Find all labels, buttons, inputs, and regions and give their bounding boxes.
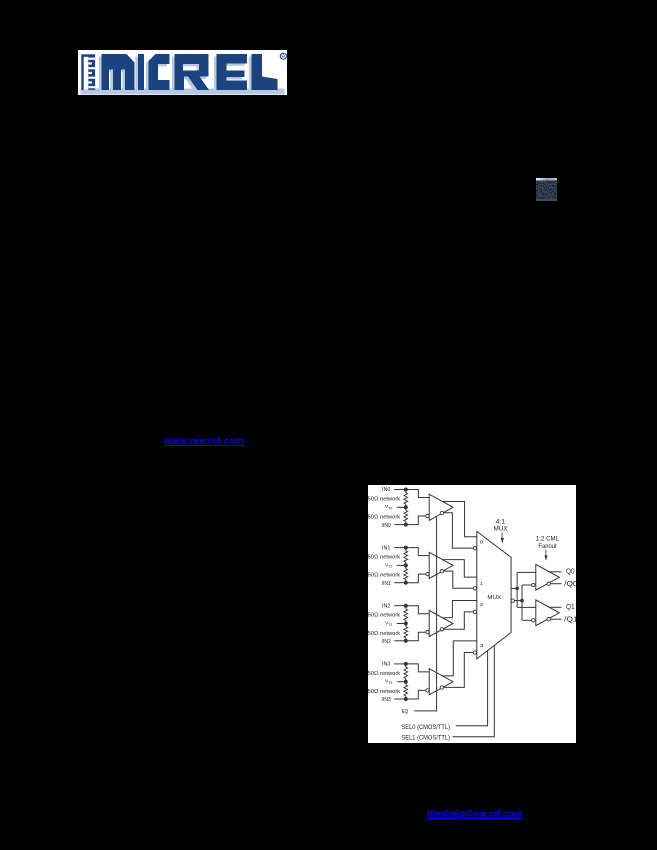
svg-text:50Ω network: 50Ω network: [368, 515, 401, 521]
svg-text:Q0: Q0: [566, 567, 575, 576]
svg-text:IN3: IN3: [382, 662, 391, 668]
svg-text:50Ω network: 50Ω network: [368, 689, 401, 695]
svg-text:/Q1: /Q1: [564, 615, 576, 624]
svg-text:VT2: VT2: [385, 620, 392, 626]
svg-text:/IN1: /IN1: [382, 581, 391, 587]
svg-text:/IN2: /IN2: [382, 639, 391, 645]
svg-text:/Q0: /Q0: [564, 579, 576, 588]
svg-text:IN0: IN0: [382, 487, 391, 493]
svg-text:4:1: 4:1: [496, 519, 506, 526]
svg-text:50Ω network: 50Ω network: [368, 631, 401, 637]
svg-text:0: 0: [480, 539, 484, 545]
svg-text:SEL1 (CMOS/TTL): SEL1 (CMOS/TTL): [401, 736, 450, 742]
svg-text:VT3: VT3: [385, 679, 392, 685]
svg-text:IN2: IN2: [382, 603, 391, 609]
svg-text:MUX: MUX: [494, 526, 509, 533]
svg-text:50Ω network: 50Ω network: [368, 496, 401, 502]
svg-text:50Ω network: 50Ω network: [368, 555, 401, 561]
svg-text:/IN3: /IN3: [382, 697, 391, 703]
svg-text:1:2 CML: 1:2 CML: [536, 535, 560, 542]
svg-text:IN1: IN1: [382, 545, 391, 551]
svg-text:VT0: VT0: [385, 504, 392, 510]
svg-text:Q1: Q1: [566, 602, 575, 611]
svg-text:/IN0: /IN0: [382, 523, 391, 529]
svg-text:1: 1: [480, 581, 483, 587]
svg-text:50Ω network: 50Ω network: [368, 573, 401, 579]
svg-text:2: 2: [480, 602, 484, 608]
svg-text:50Ω network: 50Ω network: [368, 613, 401, 619]
svg-text:VT1: VT1: [385, 562, 392, 568]
svg-text:Fanout: Fanout: [538, 543, 556, 550]
svg-text:50Ω network: 50Ω network: [368, 671, 401, 677]
svg-text:MUX: MUX: [487, 595, 501, 601]
svg-text:EQ: EQ: [402, 709, 409, 715]
svg-text:3: 3: [480, 643, 484, 649]
svg-text:R: R: [281, 54, 285, 60]
svg-text:SEL0 (CMOS/TTL): SEL0 (CMOS/TTL): [401, 725, 450, 731]
